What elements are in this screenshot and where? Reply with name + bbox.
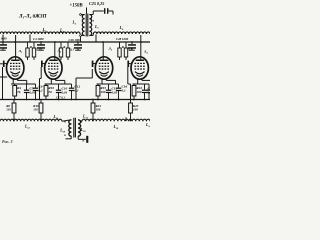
tube Л3 cathode lead [101, 78, 103, 84]
tube Л3 anode [100, 60, 108, 62]
capacitor С10 [58, 84, 60, 90]
L6 top lead [89, 14, 93, 16]
ground below cap x=78 [75, 50, 81, 51]
svg-text:L4: L4 [59, 28, 64, 34]
wire under-tube row y=84 [97, 83, 119, 85]
tube Л1 anode [11, 60, 19, 62]
wire under-tube row y=84 [11, 83, 36, 85]
junction [144, 99, 146, 101]
capacitor С12 [71, 84, 73, 88]
transformer core (top) [85, 14, 87, 37]
svg-text:0,1: 0,1 [128, 48, 132, 52]
svg-text:0,1: 0,1 [75, 88, 80, 92]
svg-text:Рис. 3: Рис. 3 [2, 139, 12, 144]
ground below cap x=41 [38, 50, 44, 51]
svg-text:L7: L7 [94, 24, 99, 30]
coil L12 (bottom left) [0, 119, 62, 121]
resistor R10 [45, 84, 47, 86]
junction rail x=41 [40, 41, 42, 43]
svg-text:0,1: 0,1 [70, 48, 74, 52]
junction rail x=3 [2, 41, 4, 43]
wire ground bus [0, 99, 150, 101]
junction [14, 99, 16, 101]
tube Л4 anode [136, 60, 144, 62]
tube Л2 grid cap [41, 61, 43, 67]
winding L6 (right) [89, 15, 91, 36]
tube Л1 anode lead [15, 35, 17, 60]
tube Л2 anode lead [54, 42, 56, 60]
resistor R24 [92, 100, 94, 104]
svg-text:L12: L12 [24, 125, 31, 130]
svg-text:L3: L3 [42, 27, 47, 33]
svg-text:С4 1000: С4 1000 [33, 37, 44, 41]
svg-text:L8: L8 [119, 25, 124, 31]
tube Л4 cathode lead [137, 78, 139, 84]
svg-text:0,01: 0,01 [62, 90, 68, 94]
junction [39, 99, 41, 101]
tube Л4 anode lead [140, 35, 142, 60]
svg-text:Л1: Л1 [18, 49, 23, 54]
tube Л4 cathode [135, 72, 145, 74]
tube Л1 heater [12, 75, 19, 77]
capacitor С5 [26, 84, 28, 90]
tube Л1 grid lead [4, 63, 7, 65]
tube Л2 cathode [49, 72, 59, 74]
svg-text:L5: L5 [72, 21, 77, 26]
wire +150V drop to transformer core [86, 8, 88, 14]
svg-text:С28 1000: С28 1000 [116, 37, 129, 41]
tube Л3 grid lead [93, 63, 96, 65]
tube Л1 cathode lead [12, 78, 14, 84]
capacitor С16 [118, 84, 120, 88]
winding L19 (left) [69, 120, 72, 136]
junction [118, 99, 120, 101]
junction rail x=78 [77, 41, 79, 43]
capacitor С22 [144, 84, 146, 90]
tube Л3 anode lead [102, 42, 104, 60]
tube Л3 heater lead [105, 78, 107, 80]
svg-text:110: 110 [33, 108, 38, 112]
tube Л1 grid cap [3, 61, 5, 67]
wire tube3 grid return [91, 69, 93, 78]
wire node at x=30 [29, 35, 31, 43]
svg-text:L14: L14 [145, 123, 150, 128]
capacitor C25 [104, 8, 105, 14]
junction rail x=55 [54, 41, 56, 43]
tube Л2 grids [48, 62, 58, 64]
wire L12 to L19 [62, 120, 71, 122]
wire tick on L18 coil [125, 117, 127, 120]
svg-text:С25 0,25: С25 0,25 [89, 1, 104, 6]
junction [58, 99, 60, 101]
wire node at x=96 [95, 35, 97, 43]
wire under-tube row y=84 [45, 83, 72, 85]
resistor screen dropper at x=61 [60, 42, 62, 48]
svg-text:76: 76 [48, 90, 52, 94]
coil L3 (top bus, left section) [0, 32, 80, 34]
junction [97, 99, 99, 101]
resistor screen dropper at x=119.5 [119, 42, 121, 48]
tube Л4 heater lead [141, 78, 143, 80]
resistor R15 [97, 84, 99, 86]
coil L7/L8 (top bus, right section) [93, 32, 150, 34]
coil L13 (bottom right) [82, 119, 150, 121]
tube Л4 grids [135, 62, 145, 64]
capacitor at x=34 [33, 42, 35, 48]
junction rail x=141 [140, 41, 142, 43]
wire node at x=3 [2, 35, 4, 45]
svg-text:R: R [63, 45, 65, 49]
ground chassis bar [86, 136, 88, 143]
junction [26, 99, 28, 101]
tube Л3 heater [101, 75, 108, 77]
ground below cap x=3 [0, 50, 6, 51]
capacitor bypass C at x=78 [77, 42, 79, 44]
wire under-tube row y=84 [133, 83, 145, 85]
junction [108, 99, 110, 101]
svg-text:100: 100 [133, 108, 138, 112]
resistor R13 [40, 100, 42, 104]
tube Л1 heater lead [16, 78, 18, 80]
capacitor at x=68 [67, 42, 69, 48]
junction [133, 99, 135, 101]
tube Л2 heater lead [55, 78, 57, 80]
tube Л1 grids [10, 62, 20, 64]
svg-text:0,1: 0,1 [39, 88, 44, 92]
tube Л2 anode [49, 60, 57, 62]
svg-text:100: 100 [136, 90, 141, 94]
tube Л4 heater [136, 75, 143, 77]
junction [75, 99, 77, 101]
capacitor С15 [108, 84, 110, 90]
tube Л1 envelope [7, 57, 24, 79]
tube Л2 heater [50, 75, 57, 77]
transformer core (bottom) [73, 118, 75, 138]
wire tube4 grid return [127, 67, 129, 84]
capacitor bypass C at x=3 [2, 42, 4, 44]
tube Л1 cathode [10, 72, 20, 74]
tube Л3 grids [99, 62, 109, 64]
junction rail x=103 [102, 41, 104, 43]
tube Л2 envelope [45, 57, 62, 79]
svg-text:R: R [30, 45, 32, 49]
tube Л4 grid lead [129, 63, 132, 65]
svg-text:L17: L17 [82, 115, 89, 120]
capacitor С6 [35, 84, 37, 88]
svg-text:С26 1000: С26 1000 [69, 38, 82, 42]
L5 bottom lead + terminal [81, 35, 84, 37]
svg-text:L20: L20 [80, 128, 87, 133]
svg-text:1000: 1000 [1, 37, 8, 41]
junction [130, 99, 132, 101]
svg-text:L18: L18 [113, 125, 120, 130]
L5 top lead + terminal [81, 14, 84, 16]
wire L5 bottom to rail [80, 36, 82, 42]
winding L20 (right) [78, 120, 81, 136]
resistor screen dropper at x=27.5 [27, 42, 29, 48]
wire tube1 grid return [2, 67, 4, 100]
wire input to tube 1 [0, 63, 3, 65]
wire L20 to L13 [78, 120, 82, 122]
svg-text:Л1-Л4 6Ж3П: Л1-Л4 6Ж3П [18, 14, 48, 20]
wire tube1 lower-left stub [0, 76, 7, 78]
tube Л4 grid cap [127, 61, 129, 67]
svg-text:0,1: 0,1 [122, 88, 127, 92]
tube Л3 cathode [99, 72, 109, 74]
svg-text:76: 76 [17, 90, 21, 94]
tube Л3 envelope [95, 57, 112, 79]
junction [35, 99, 37, 101]
tube Л3 grid cap [92, 61, 94, 67]
svg-text:Л4: Л4 [143, 50, 148, 55]
svg-text:110: 110 [6, 108, 11, 112]
junction [92, 99, 94, 101]
svg-text:100: 100 [96, 108, 101, 112]
svg-text:+150В: +150В [70, 3, 84, 8]
winding L5 (left) [82, 15, 84, 36]
wire +150V rail [0, 41, 150, 43]
capacitor at x=126 [125, 42, 127, 48]
capacitor bypass C at x=41 [40, 42, 42, 44]
wire tube2 grid return [40, 67, 42, 79]
svg-text:R: R [122, 45, 124, 49]
svg-text:0,1: 0,1 [36, 48, 40, 52]
junction [71, 99, 73, 101]
capacitor clipped at right edge [148, 84, 150, 90]
svg-text:к: к [64, 133, 66, 137]
L6 bottom lead [89, 35, 93, 37]
wire row extension [145, 83, 150, 85]
resistor R4 [14, 84, 16, 86]
wire L19 bottom lead [70, 136, 72, 139]
svg-text:L6: L6 [90, 18, 95, 23]
svg-text:Л2: Л2 [57, 49, 62, 54]
resistor R22 [133, 84, 135, 86]
tube Л2 grid lead [42, 63, 45, 65]
junction rail x=15 [14, 41, 16, 43]
resistor R25 [130, 100, 132, 104]
ground below cap x=132 [129, 50, 135, 51]
svg-text:Л3: Л3 [108, 47, 113, 52]
svg-text:100: 100 [100, 90, 105, 94]
wire L20 bottom lead [77, 136, 79, 139]
capacitor bypass C at x=132 [131, 42, 133, 44]
tube Л2 cathode lead [50, 78, 52, 84]
wire L6 top to cap C25 [92, 11, 94, 15]
tube Л4 envelope [131, 57, 148, 79]
junction rail x=132 [131, 41, 133, 43]
resistor R6 [13, 100, 15, 104]
